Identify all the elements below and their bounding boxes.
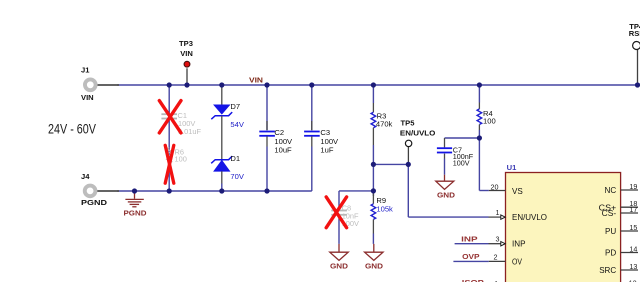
svg-text:OV: OV (512, 258, 523, 267)
svg-text:PU: PU (605, 227, 616, 236)
junction VIN/C1 (167, 82, 172, 87)
svg-text:GND: GND (437, 191, 456, 200)
svg-text:SRC: SRC (599, 266, 616, 275)
junction VIN/TP3 (184, 82, 189, 87)
svg-text:J1: J1 (81, 66, 90, 75)
svg-text:INP: INP (512, 240, 526, 249)
pin 13 SRC (599, 262, 638, 275)
ground GND (C8) (330, 244, 349, 270)
svg-text:17: 17 (629, 205, 637, 214)
svg-text:C2: C2 (274, 128, 284, 137)
svg-text:D1: D1 (230, 154, 240, 163)
junction PGND/R6 (167, 188, 172, 193)
junction VIN/C2 (264, 82, 269, 87)
pin 17 CS- (602, 205, 638, 218)
svg-text:U1: U1 (507, 163, 517, 172)
svg-text:3: 3 (496, 235, 500, 244)
connector J1 (81, 66, 119, 102)
svg-text:PGND: PGND (124, 208, 148, 217)
svg-text:14: 14 (629, 244, 637, 253)
junction VIN/R3 (371, 82, 376, 87)
diode D7 (zener 54V) (211, 85, 245, 159)
svg-text:20: 20 (491, 183, 499, 192)
junction VIN/C3 (309, 82, 314, 87)
svg-text:ISOP: ISOP (462, 278, 484, 282)
svg-text:TP5: TP5 (401, 119, 416, 128)
DNP cross over C8 (326, 197, 346, 228)
resistor R9 (371, 164, 393, 244)
svg-text:J4: J4 (81, 172, 90, 181)
wire C8 tap (339, 190, 373, 192)
svg-text:NC: NC (604, 186, 616, 195)
junction PGND/D1 (219, 188, 224, 193)
DNP cross over R6 (165, 145, 174, 183)
wire VS pin feed (479, 190, 488, 192)
svg-text:10uF: 10uF (274, 146, 292, 155)
svg-text:C3: C3 (320, 128, 330, 137)
junction R4/C7 (477, 135, 482, 140)
pin 15 PU (605, 223, 638, 236)
svg-text:GND: GND (365, 261, 384, 270)
IC U1 body (506, 163, 621, 282)
svg-text:15: 15 (629, 223, 637, 232)
svg-text:470k: 470k (376, 119, 393, 128)
svg-text:100: 100 (175, 155, 187, 164)
svg-text:VIN: VIN (180, 49, 193, 58)
pin 3 INP (496, 235, 526, 249)
svg-text:2: 2 (494, 253, 498, 262)
svg-text:100: 100 (483, 116, 496, 125)
junction VIN/TP right (635, 82, 640, 87)
junction PGND symbol (132, 188, 137, 193)
svg-text:EN/UVLO: EN/UVLO (400, 128, 436, 137)
junction EN/TP5 (406, 162, 411, 167)
resistor R4 (477, 85, 496, 191)
svg-text:12: 12 (629, 279, 637, 282)
pin 1 EN/UVLO (496, 208, 548, 222)
capacitor C3 (304, 85, 339, 191)
resistor R6 (DNP, faded) (167, 148, 187, 164)
pin 19 NC (604, 182, 638, 195)
svg-text:70V: 70V (230, 172, 244, 181)
svg-text:VIN: VIN (81, 93, 94, 102)
svg-text:54V: 54V (230, 120, 244, 129)
svg-text:GND: GND (330, 261, 349, 270)
pin 14 PD (605, 244, 638, 257)
capacitor C2 (259, 85, 293, 191)
svg-text:RSNS: RSNS (629, 29, 640, 38)
svg-text:13: 13 (629, 262, 637, 271)
net label INP with wire (455, 235, 501, 244)
svg-text:100V: 100V (453, 158, 470, 167)
svg-text:PGND: PGND (81, 198, 108, 207)
ground PGND (124, 191, 148, 217)
capacitor C1 (DNP, faded) (161, 85, 201, 191)
junction R9/C8 (371, 188, 376, 193)
wire VIN top rail (117, 84, 639, 86)
svg-text:PD: PD (605, 249, 616, 258)
svg-text:VS: VS (512, 187, 523, 196)
test point TP5 (400, 119, 436, 165)
wire PGND bottom rail (117, 190, 312, 192)
svg-text:TP3: TP3 (179, 39, 193, 48)
wire EN/UVLO net (373, 164, 500, 217)
svg-text:D7: D7 (230, 102, 240, 111)
svg-text:24V - 60V: 24V - 60V (48, 122, 96, 138)
pin 18 CS+ (599, 199, 638, 212)
capacitor C8 (DNP, faded) (331, 191, 359, 244)
junction EN/R3 (371, 162, 376, 167)
connector J4 (81, 172, 119, 207)
junction VIN/D7 (219, 82, 224, 87)
svg-text:19: 19 (629, 182, 637, 191)
svg-text:EN/UVLO: EN/UVLO (512, 213, 547, 222)
pin 20 VS (489, 183, 524, 196)
pin 2 OV (494, 253, 523, 267)
junction VIN/R4 (477, 82, 482, 87)
junction PGND/C2 (264, 188, 269, 193)
diode D1 (zener 70V) (211, 154, 245, 191)
net label OVP with wire (453, 252, 505, 261)
svg-text:105k: 105k (376, 204, 393, 213)
test point TP3 (179, 39, 193, 85)
svg-text:VIN: VIN (249, 75, 263, 84)
svg-text:CS-: CS- (602, 209, 617, 218)
test point TP (top right, clipped) (629, 22, 640, 85)
svg-text:1: 1 (496, 208, 500, 217)
svg-text:1uF: 1uF (320, 146, 333, 155)
svg-text:OVP: OVP (462, 252, 480, 261)
capacitor C7 (437, 138, 480, 175)
ground GND (C7) (436, 175, 456, 200)
ground GND (R9) (365, 244, 384, 270)
svg-text:INP: INP (461, 235, 478, 244)
resistor R3 (371, 85, 392, 164)
DNP cross over C1 (159, 101, 181, 133)
